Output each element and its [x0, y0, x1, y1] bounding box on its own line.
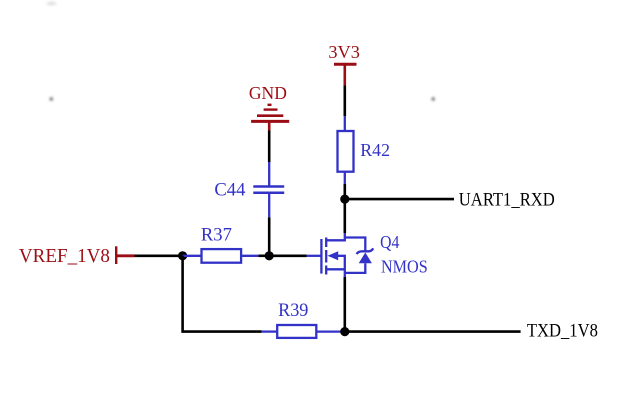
- svg-text:R39: R39: [278, 301, 308, 321]
- svg-text:VREF_1V8: VREF_1V8: [19, 246, 110, 267]
- svg-text:R42: R42: [360, 140, 390, 160]
- svg-text:C44: C44: [214, 179, 245, 200]
- svg-text:Q4: Q4: [380, 232, 399, 252]
- svg-text:NMOS: NMOS: [381, 257, 428, 277]
- svg-text:GND: GND: [249, 83, 287, 103]
- svg-text:TXD_1V8: TXD_1V8: [527, 322, 598, 342]
- svg-text:R37: R37: [201, 226, 232, 246]
- svg-text:3V3: 3V3: [328, 42, 360, 62]
- svg-text:UART1_RXD: UART1_RXD: [459, 190, 555, 210]
